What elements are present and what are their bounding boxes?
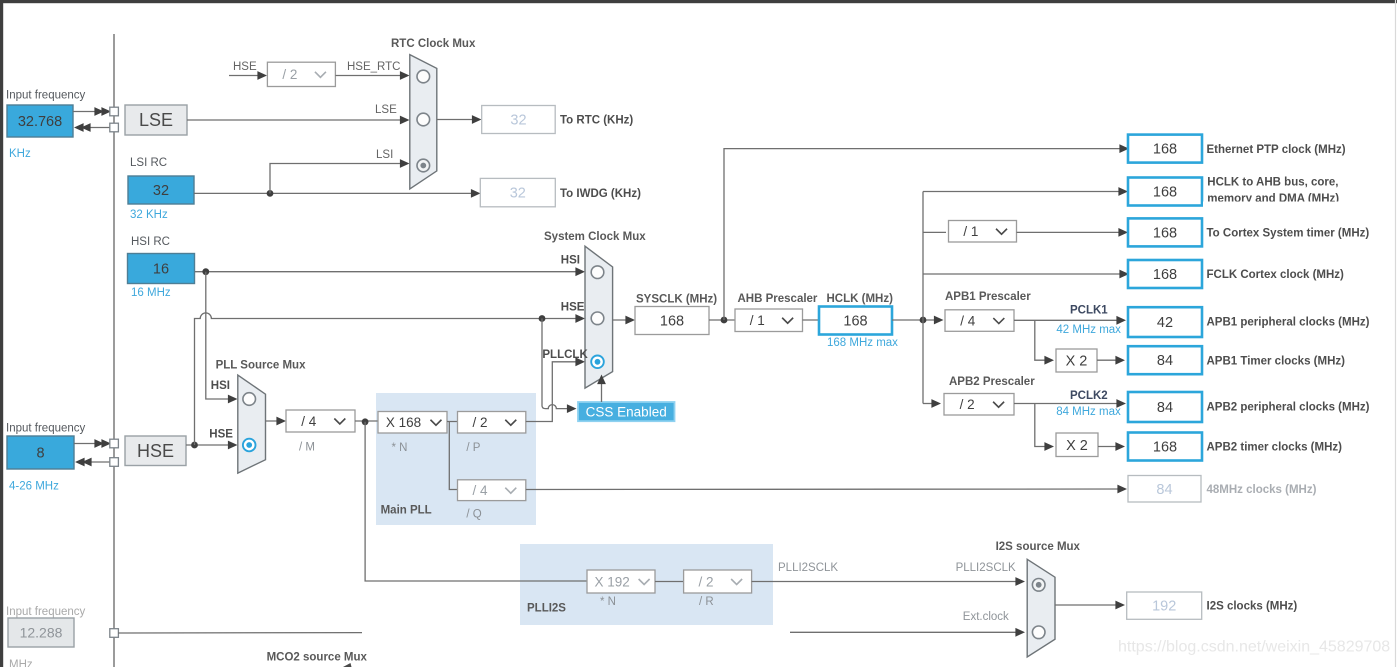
box output APB1 peripheral clocks (MHz) = 42 bbox=[1128, 307, 1202, 337]
box output FCLK Cortex clock (MHz) = 168 bbox=[1128, 260, 1202, 288]
right edge line bbox=[1395, 0, 1397, 667]
radio SYS PLLCLK selected blue bbox=[591, 356, 604, 369]
svg-text:PLLI2S: PLLI2S bbox=[527, 603, 566, 615]
multiplier *N value X168 bbox=[378, 412, 447, 434]
svg-text:HSE: HSE bbox=[233, 61, 257, 73]
mux System Clock Mux bbox=[585, 246, 613, 388]
svg-text:CSS Enabled: CSS Enabled bbox=[586, 404, 667, 419]
svg-text:LSE: LSE bbox=[375, 104, 397, 116]
svg-text:APB2 peripheral clocks (MHz): APB2 peripheral clocks (MHz) bbox=[1207, 402, 1370, 414]
svg-text:HSE_RTC: HSE_RTC bbox=[347, 61, 400, 73]
svg-text:APB2 Prescaler: APB2 Prescaler bbox=[949, 376, 1035, 388]
svg-text:/ Q: / Q bbox=[466, 509, 481, 521]
wire PLLI2SCLK to I2S mux bbox=[752, 581, 1022, 583]
wire PLL mux out to /M bbox=[266, 420, 284, 422]
svg-text:LSI RC: LSI RC bbox=[130, 157, 167, 169]
svg-text:Ext.clock: Ext.clock bbox=[963, 611, 1009, 623]
wire bus bottom to APB2 prescaler bbox=[923, 403, 938, 405]
wire AHB to HCLK bbox=[803, 319, 820, 321]
divider HSE_RTC /2 bbox=[267, 62, 335, 86]
wire X192 to /R bbox=[655, 581, 684, 583]
frame border top bbox=[0, 0, 1397, 3]
junction ethernet tap bbox=[721, 317, 728, 324]
box SYSCLK 168 bbox=[635, 307, 709, 335]
wire HSE net up to system mux (hop over HSI wire) bbox=[195, 313, 583, 445]
svg-text:168: 168 bbox=[660, 314, 684, 330]
svg-text:48MHz clocks (MHz): 48MHz clocks (MHz) bbox=[1207, 484, 1317, 496]
svg-text:4-26 MHz: 4-26 MHz bbox=[9, 481, 59, 493]
wire I2S mux out to I2S box bbox=[1055, 604, 1122, 606]
svg-text:/ 4: / 4 bbox=[473, 483, 489, 498]
arrow MCO2 mux input bbox=[343, 663, 352, 667]
svg-text:PLLI2SCLK: PLLI2SCLK bbox=[778, 562, 838, 574]
block HSE bbox=[125, 436, 186, 466]
box output APB2 peripheral clocks (MHz) = 84 bbox=[1128, 392, 1202, 422]
svg-text:X 2: X 2 bbox=[1066, 438, 1088, 454]
svg-text:KHz: KHz bbox=[9, 148, 31, 160]
svg-text:/ 1: / 1 bbox=[963, 224, 978, 239]
wire bus to cortex divider bbox=[923, 231, 946, 233]
svg-text:I2S clocks (MHz): I2S clocks (MHz) bbox=[1207, 601, 1298, 613]
svg-text:168 MHz max: 168 MHz max bbox=[827, 337, 898, 349]
wire MCO2 bbox=[118, 632, 362, 634]
svg-text:X 2: X 2 bbox=[1066, 354, 1088, 370]
radio RTC HSE_RTC off bbox=[417, 70, 430, 83]
wire bus to FCLK box bbox=[923, 273, 1126, 275]
svg-text:84: 84 bbox=[1157, 400, 1173, 416]
wire system mux out to SYSCLK bbox=[613, 319, 632, 321]
divider /R value /2 bbox=[684, 570, 752, 593]
port MCO2 bbox=[110, 629, 119, 638]
junction HSE net bbox=[191, 442, 198, 449]
svg-text:84: 84 bbox=[1156, 482, 1172, 498]
prescaler AHB value /1 bbox=[735, 309, 803, 332]
svg-text:/ 1: / 1 bbox=[750, 313, 765, 328]
wire Ext.clock to I2S mux bbox=[790, 631, 1022, 633]
svg-text:MHz: MHz bbox=[9, 659, 33, 667]
wire CSS tap to CSS Enabled (hop over PLLCLK wire) bbox=[542, 319, 573, 409]
wire CSS Enabled up to mux bbox=[601, 378, 603, 402]
junction HCLK bus bbox=[920, 317, 927, 324]
box To IWDG value 32 bbox=[480, 178, 555, 206]
box HCLK 168 bbox=[819, 307, 892, 335]
multiplier X2 APB1 bbox=[1056, 349, 1097, 372]
box output Ethernet PTP clock (MHz) = 168 bbox=[1128, 135, 1202, 163]
svg-text:https://blog.csdn.net/weixin_4: https://blog.csdn.net/weixin_45829708 bbox=[1118, 639, 1390, 656]
block LSI RC 32 bbox=[128, 176, 194, 204]
wire HSE out to PLL mux bbox=[186, 444, 235, 446]
svg-text:SYSCLK (MHz): SYSCLK (MHz) bbox=[636, 294, 717, 306]
frame border left bbox=[0, 0, 3, 667]
box To RTC value 32 bbox=[482, 106, 556, 134]
svg-text:84: 84 bbox=[1157, 353, 1173, 369]
svg-text:32: 32 bbox=[510, 113, 526, 129]
wire LSE to RTC mux bbox=[187, 119, 407, 121]
svg-text:PLLI2SCLK: PLLI2SCLK bbox=[956, 562, 1016, 574]
wire cortex divider to box bbox=[1017, 231, 1126, 233]
wire /Q out to 48MHz box bbox=[526, 488, 1124, 491]
wire HSE to rtc divider bbox=[229, 75, 259, 77]
svg-text:PLL Source Mux: PLL Source Mux bbox=[216, 360, 306, 372]
svg-text:168: 168 bbox=[1153, 440, 1177, 456]
input box 12.288 bbox=[8, 618, 74, 647]
input box 32.768 bbox=[7, 105, 73, 137]
block HSI RC 16 bbox=[128, 254, 195, 284]
svg-text:84 MHz max: 84 MHz max bbox=[1056, 406, 1121, 418]
svg-text:To Cortex System timer (MHz): To Cortex System timer (MHz) bbox=[1207, 228, 1370, 240]
wire HCLK out to APB1 prescaler bbox=[892, 319, 940, 321]
divider /Q value /4 bbox=[458, 480, 526, 501]
wire HSI branch down to PLL mux bbox=[206, 272, 235, 399]
svg-text:PCLK2: PCLK2 bbox=[1070, 390, 1108, 402]
wire APB2 branch to X2 timer bbox=[1035, 404, 1051, 447]
mux PLL Source Mux bbox=[238, 375, 266, 473]
svg-text:HSE: HSE bbox=[561, 302, 585, 314]
junction HSI branch bbox=[202, 268, 209, 275]
svg-text:RTC Clock Mux: RTC Clock Mux bbox=[391, 38, 476, 50]
svg-text:32.768: 32.768 bbox=[18, 114, 62, 130]
radio I2S Ext.clock off bbox=[1032, 626, 1045, 639]
svg-text:* N: * N bbox=[392, 442, 408, 454]
svg-text:/ 2: / 2 bbox=[699, 574, 714, 589]
svg-text:8: 8 bbox=[36, 446, 44, 462]
junction CSS tap bbox=[539, 315, 546, 322]
radio PLL HSE selected blue bbox=[243, 439, 256, 452]
radio RTC LSI selected bbox=[417, 159, 430, 172]
svg-text:* N: * N bbox=[600, 596, 616, 608]
wire LSI branch to RTC mux bbox=[270, 164, 407, 194]
svg-text:Input frequency: Input frequency bbox=[6, 90, 86, 102]
radio PLL HSI off bbox=[243, 393, 256, 406]
svg-text:HSI RC: HSI RC bbox=[131, 236, 170, 248]
wire RTC mux to To-RTC box bbox=[437, 119, 479, 121]
svg-text:/ 2: / 2 bbox=[473, 415, 488, 430]
wire APB1 out PCLK1 bbox=[1014, 319, 1123, 321]
svg-text:HSE: HSE bbox=[209, 429, 233, 441]
svg-text:/ 2: / 2 bbox=[282, 67, 297, 82]
svg-text:LSE: LSE bbox=[139, 110, 173, 130]
box output HCLK to AHB bus = 168 bbox=[1128, 178, 1202, 206]
radio I2S PLLI2SCLK selected bbox=[1032, 579, 1045, 592]
radio SYS HSE off bbox=[591, 312, 604, 325]
svg-text:168: 168 bbox=[1153, 185, 1177, 201]
box output APB1 Timer clocks (MHz) = 84 bbox=[1128, 346, 1202, 374]
svg-text:32: 32 bbox=[153, 183, 169, 199]
port HSE out bbox=[110, 458, 119, 467]
svg-text:APB1 Prescaler: APB1 Prescaler bbox=[945, 291, 1031, 303]
wire bus to HCLK-AHB box bbox=[923, 191, 1125, 193]
wire APB2 out PCLK2 bbox=[1014, 403, 1123, 405]
svg-text:32: 32 bbox=[510, 186, 526, 202]
divider cortex value /1 bbox=[949, 221, 1017, 243]
multiplier X2 APB2 bbox=[1056, 433, 1098, 457]
wire 32.768 to rail with double arrow bbox=[73, 111, 96, 113]
svg-text:LSI: LSI bbox=[376, 149, 393, 161]
multiplier PLLI2S *N value X192 bbox=[587, 570, 655, 593]
wire PLLI2S feed down to X192 bbox=[365, 422, 587, 581]
svg-text:192: 192 bbox=[1152, 599, 1176, 615]
svg-text:168: 168 bbox=[843, 314, 867, 330]
block LSE bbox=[125, 105, 187, 135]
wire HCLK bus vertical bbox=[922, 192, 924, 404]
svg-text:AHB Prescaler: AHB Prescaler bbox=[738, 293, 818, 305]
wire /P out PLLCLK to system mux bbox=[526, 362, 582, 422]
svg-text:MCO2 source Mux: MCO2 source Mux bbox=[267, 652, 368, 664]
wire APB1 branch to X2 timer bbox=[1035, 320, 1051, 360]
svg-text:Main PLL: Main PLL bbox=[381, 505, 432, 517]
left I/O rail bbox=[113, 34, 115, 667]
button CSS Enabled bbox=[578, 402, 675, 421]
svg-text:HSI: HSI bbox=[561, 255, 580, 267]
svg-text:APB1 Timer clocks (MHz): APB1 Timer clocks (MHz) bbox=[1207, 355, 1346, 367]
mux I2S source Mux bbox=[1027, 559, 1055, 657]
prescaler APB1 value /4 bbox=[945, 310, 1014, 332]
svg-text:HSI: HSI bbox=[211, 380, 230, 392]
svg-text:/ 4: / 4 bbox=[960, 313, 976, 328]
svg-text:To IWDG (KHz): To IWDG (KHz) bbox=[560, 188, 641, 200]
svg-text:HCLK (MHz): HCLK (MHz) bbox=[827, 293, 894, 305]
wire 8 to rail with double arrow bbox=[74, 443, 96, 445]
svg-text:APB1 peripheral clocks (MHz): APB1 peripheral clocks (MHz) bbox=[1207, 317, 1370, 329]
svg-text:X 192: X 192 bbox=[595, 574, 630, 589]
svg-text:To RTC (KHz): To RTC (KHz) bbox=[560, 115, 633, 127]
radio SYS HSI off bbox=[591, 266, 604, 279]
svg-text:Ethernet PTP clock (MHz): Ethernet PTP clock (MHz) bbox=[1207, 144, 1346, 156]
svg-text:HSE: HSE bbox=[137, 441, 174, 461]
wire /M to X168 bbox=[355, 420, 378, 422]
radio RTC LSE off bbox=[417, 113, 430, 126]
svg-text:32 KHz: 32 KHz bbox=[130, 209, 168, 221]
input box 8 bbox=[7, 436, 74, 469]
svg-text:/ 4: / 4 bbox=[301, 414, 317, 429]
svg-text:PLLCLK: PLLCLK bbox=[542, 349, 588, 361]
divider /P value /2 bbox=[458, 412, 526, 434]
wire X168 to /P and /Q branch bbox=[447, 422, 458, 490]
svg-text:HCLK to AHB bus, core,: HCLK to AHB bus, core, bbox=[1207, 176, 1338, 188]
wire HSI to system mux bbox=[195, 271, 582, 273]
box I2S clocks value 192 bbox=[1127, 592, 1202, 619]
box output APB2 timer clocks (MHz) = 168 bbox=[1128, 433, 1202, 461]
svg-text:16: 16 bbox=[153, 262, 169, 278]
svg-text:/ M: / M bbox=[299, 442, 315, 454]
port LSE out bbox=[110, 123, 119, 132]
svg-text:Input frequency: Input frequency bbox=[6, 423, 86, 435]
wire SYSCLK to AHB prescaler bbox=[709, 319, 735, 321]
Main PLL panel bbox=[376, 393, 536, 525]
svg-text:16 MHz: 16 MHz bbox=[131, 287, 171, 299]
port HSE in bbox=[110, 439, 119, 448]
junction LSI branch bbox=[267, 190, 274, 197]
box output To Cortex System timer (MHz) = 168 bbox=[1128, 218, 1202, 246]
mux RTC Clock Mux bbox=[410, 55, 437, 189]
svg-text:X 168: X 168 bbox=[386, 415, 421, 430]
svg-text:/ 2: / 2 bbox=[960, 397, 975, 412]
svg-text:168: 168 bbox=[1153, 225, 1177, 241]
svg-text:168: 168 bbox=[1153, 142, 1177, 158]
svg-text:PCLK1: PCLK1 bbox=[1070, 305, 1108, 317]
svg-text:APB2 timer clocks (MHz): APB2 timer clocks (MHz) bbox=[1207, 442, 1343, 454]
svg-text:12.288: 12.288 bbox=[20, 625, 63, 641]
svg-text:I2S source Mux: I2S source Mux bbox=[996, 541, 1081, 553]
svg-text:/ P: / P bbox=[466, 442, 480, 454]
box output 48MHz clocks (MHz) = 84 bbox=[1128, 476, 1201, 503]
svg-text:/ R: / R bbox=[699, 596, 714, 608]
svg-text:42: 42 bbox=[1157, 315, 1173, 331]
prescaler APB2 value /2 bbox=[944, 394, 1014, 416]
clip rect over second line bbox=[1203, 202, 1397, 209]
junction PLLI2S feed bbox=[362, 418, 369, 425]
PLLI2S panel bbox=[520, 544, 773, 625]
wire X2 APB1 to box bbox=[1097, 359, 1122, 361]
svg-text:Input frequency: Input frequency bbox=[6, 606, 86, 618]
divider /M value /4 bbox=[286, 410, 355, 432]
svg-text:42 MHz max: 42 MHz max bbox=[1056, 324, 1121, 336]
svg-text:System Clock Mux: System Clock Mux bbox=[544, 231, 646, 243]
wire X2 APB2 to box bbox=[1098, 446, 1122, 448]
svg-text:FCLK Cortex clock (MHz): FCLK Cortex clock (MHz) bbox=[1207, 269, 1345, 281]
port LSE in bbox=[110, 107, 119, 116]
wire rail to 8 with double arrow bbox=[88, 461, 110, 463]
wire LSI out to IWDG bbox=[194, 192, 478, 194]
wire rail to 32.768 with double arrow bbox=[88, 127, 110, 129]
svg-text:168: 168 bbox=[1153, 267, 1177, 283]
wire divider to RTC mux bbox=[335, 75, 407, 77]
wire ethernet tap up to Ethernet PTP box bbox=[724, 149, 1126, 320]
